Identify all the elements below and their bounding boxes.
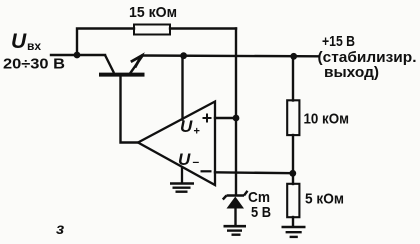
node output rail junction <box>290 53 297 60</box>
node input junction <box>74 52 81 59</box>
op-amp U1 comparator triangle <box>138 102 215 186</box>
svg-text:з: з <box>56 221 64 238</box>
zener diode VD1 (Ст) <box>223 191 248 209</box>
wire vertical drop from rail to zener node <box>235 29 237 119</box>
svg-text:U: U <box>178 150 191 169</box>
wire input segment <box>51 54 105 56</box>
wire zener to ground <box>234 209 236 227</box>
wire top rail right <box>170 27 236 29</box>
wire output rail to R2 <box>292 56 294 100</box>
node emitter rail junction <box>180 52 187 59</box>
svg-text:+15 В: +15 В <box>322 33 355 50</box>
wire base lead down to op-amp output <box>121 75 138 143</box>
svg-text:15 кОм: 15 кОм <box>129 4 177 21</box>
wire inverting input U- to divider tap <box>215 171 293 174</box>
svg-text:U: U <box>11 30 27 53</box>
svg-text:5 кОм: 5 кОм <box>305 191 344 208</box>
svg-text:+: + <box>194 126 200 138</box>
svg-text:U: U <box>180 117 193 136</box>
svg-text:20÷30 В: 20÷30 В <box>3 56 65 73</box>
svg-text:вх: вх <box>27 39 41 53</box>
wire op-amp V+ supply from output rail <box>181 56 183 120</box>
wire emitter to output terminal <box>143 54 319 57</box>
ground under divider <box>282 227 306 237</box>
ground under op-amp <box>170 168 194 192</box>
op-amp U1 plus polarity mark <box>203 114 212 123</box>
node divider tap junction <box>289 170 296 177</box>
transistor Q1 pass transistor <box>99 55 145 75</box>
svg-text:выход): выход) <box>324 64 379 81</box>
ground under zener <box>224 226 247 235</box>
wire riser to top rail <box>77 29 134 56</box>
wire non-inverting input U+ <box>215 117 236 119</box>
svg-text:5 В: 5 В <box>251 204 271 221</box>
wire zener branch vertical <box>235 118 237 195</box>
svg-text:10 кОм: 10 кОм <box>304 111 350 128</box>
op-amp U1 minus polarity mark <box>201 170 212 172</box>
node zener / U+ junction <box>233 115 240 122</box>
resistor R3 5 kOhm body <box>287 184 299 217</box>
resistor R1 15 kOhm body <box>134 25 170 35</box>
svg-text:–: – <box>193 155 200 169</box>
resistor R2 10 kOhm body <box>287 100 299 135</box>
wire R2 to R3 <box>292 135 294 184</box>
wire R3 to ground <box>292 217 294 227</box>
